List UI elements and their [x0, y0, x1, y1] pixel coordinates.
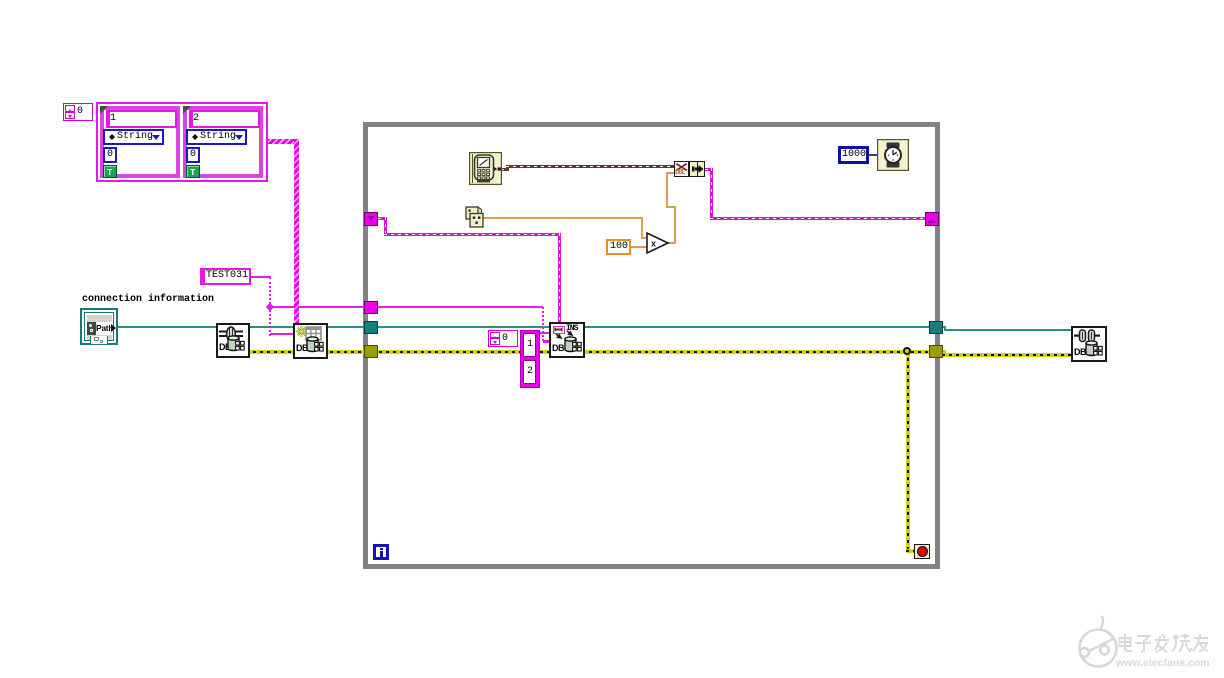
svg-text:www.elecfans.com: www.elecfans.com [1115, 657, 1210, 669]
svg-text:x: x [651, 239, 656, 249]
